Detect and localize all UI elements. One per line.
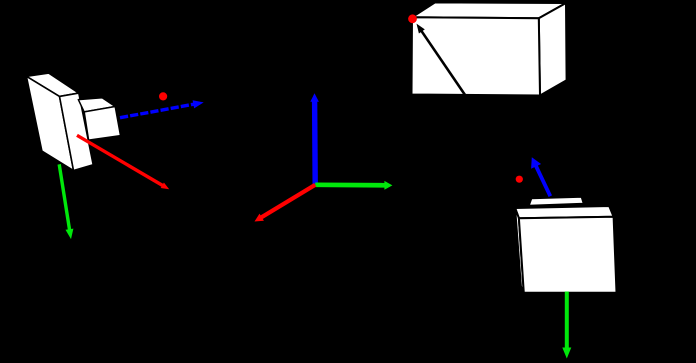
world frame y-axis green arrow [315, 181, 392, 190]
camera lens top face [78, 98, 115, 112]
world frame z-axis blue arrow [310, 93, 319, 185]
camera x-axis red arrow [77, 135, 169, 189]
camera body slab top face [26, 73, 78, 96]
projector top face [515, 206, 614, 218]
world frame x-axis red arrow [255, 185, 316, 222]
object point vector black arrow [417, 24, 467, 97]
object box top face [412, 2, 566, 18]
projector y-axis green arrow [562, 292, 571, 359]
camera y-axis green arrow [59, 164, 73, 239]
projector front face [519, 217, 617, 293]
camera z-axis blue dashed arrow [120, 100, 204, 118]
object box right face [539, 3, 567, 96]
object box front face [412, 17, 541, 95]
camera body slab front face [26, 76, 73, 170]
camera image point red dot [159, 92, 167, 100]
projector point red dot [516, 176, 523, 183]
projector left face [515, 208, 524, 293]
camera lens front face [84, 107, 120, 141]
projector top plate [529, 197, 584, 206]
object corner red dot [408, 14, 417, 23]
camera body slab right face [60, 93, 94, 170]
projector z-axis blue dashed arrow [531, 157, 550, 196]
